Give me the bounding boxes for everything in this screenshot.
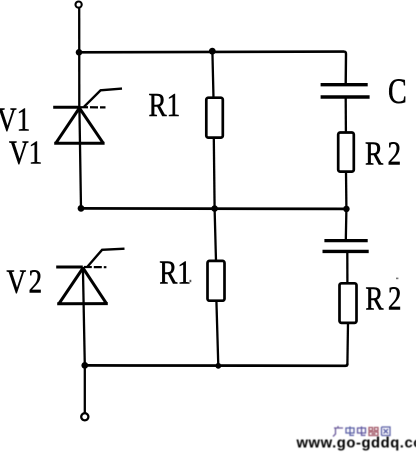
svg-text:R2: R2: [365, 280, 406, 318]
wire R1 bottom lead: [213, 138, 216, 209]
node top-left junction: [76, 49, 83, 56]
top terminal: [76, 2, 82, 8]
svg-text:V2: V2: [7, 263, 45, 301]
node bottom-left junction: [81, 362, 88, 369]
node top R1 junction: [209, 48, 216, 55]
capacitor (lower): [323, 241, 369, 252]
node mid-left junction: [78, 205, 85, 212]
svg-text:C: C: [388, 70, 407, 110]
wire top lead: [78, 8, 80, 107]
wire R2 to mid rail: [345, 172, 348, 209]
node bottom R1 junction: [215, 363, 221, 369]
capacitor C: [321, 85, 370, 97]
wire V1 to mid rail: [79, 107, 81, 209]
speck left of R1b: [190, 280, 192, 282]
wire cap2 to R2b: [346, 251, 348, 283]
speck near R2b: [396, 278, 398, 280]
resistor R2 (lower): [340, 283, 357, 323]
svg-text:R2: R2: [365, 135, 406, 173]
wire top rail: [79, 50, 344, 53]
node mid-right junction: [343, 206, 350, 213]
svg-text:R1: R1: [149, 86, 181, 124]
wire mid rail to cap2: [345, 209, 348, 241]
wire middle rail: [81, 207, 347, 210]
wire V2 anode to bottom rail: [83, 267, 85, 366]
wire top-right corner: [344, 52, 346, 85]
svg-text:V1: V1: [0, 101, 30, 139]
svg-text:R1: R1: [159, 253, 191, 291]
wire R2b to bottom rail: [346, 323, 349, 364]
resistor R2 (upper): [338, 133, 354, 172]
svg-text:www.go-gddq.com: www.go-gddq.com: [296, 436, 416, 452]
wire bottom lead: [84, 365, 86, 412]
thyristor V2: [56, 249, 124, 304]
wire R1 top lead: [212, 52, 213, 99]
thyristor V1: [53, 89, 122, 144]
wire R1b top lead: [215, 209, 216, 261]
resistor R1 (lower): [208, 261, 225, 301]
bottom terminal: [81, 413, 88, 420]
watermark url: [296, 436, 416, 452]
node mid R1 junction: [211, 205, 218, 212]
resistor R1 (upper): [206, 98, 223, 138]
wire cap to R2: [345, 97, 347, 133]
watermark 广电电器网: [333, 426, 390, 437]
svg-text:V1: V1: [9, 134, 42, 172]
wire R1b bottom lead: [216, 301, 218, 366]
wire bottom rail: [85, 364, 348, 366]
